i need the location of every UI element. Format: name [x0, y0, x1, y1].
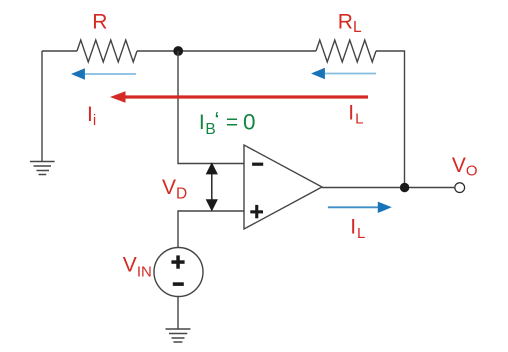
wire node A down to inverting input — [178, 51, 244, 164]
svg-text:RL: RL — [338, 10, 362, 36]
ground bottom — [166, 329, 191, 342]
current arrow Ii (blue, under R) — [71, 68, 136, 79]
ground left — [30, 162, 55, 175]
wire noninverting input — [178, 211, 244, 248]
wire VIN to ground — [177, 297, 179, 330]
wire top-right to corner down to output node — [376, 51, 405, 188]
wire top middle — [137, 50, 316, 52]
svg-text:IL: IL — [350, 215, 365, 242]
VD double arrow — [206, 162, 218, 211]
current arrow IL output (blue) — [328, 202, 392, 213]
source VIN — [154, 248, 203, 297]
svg-text:Ii: Ii — [87, 103, 96, 129]
svg-text:VO: VO — [452, 154, 478, 179]
node A top — [173, 46, 183, 56]
wire op-amp output — [322, 187, 454, 189]
svg-text:IL: IL — [348, 102, 363, 128]
op-amp U1 — [244, 145, 322, 229]
node B output — [400, 183, 409, 192]
svg-text:VIN: VIN — [123, 253, 152, 280]
current arrow IL big red — [110, 91, 368, 103]
resistor RL — [316, 40, 376, 62]
current arrow IL (blue, under RL) — [311, 68, 376, 79]
svg-text:R: R — [92, 11, 107, 34]
svg-text:IB‘=0: IB‘=0 — [199, 107, 256, 138]
wire top-left horizontal — [42, 50, 77, 52]
resistor R — [77, 40, 137, 62]
wire left vertical — [41, 51, 43, 161]
terminal VO open circle — [455, 183, 465, 193]
svg-text:VD: VD — [162, 176, 187, 203]
